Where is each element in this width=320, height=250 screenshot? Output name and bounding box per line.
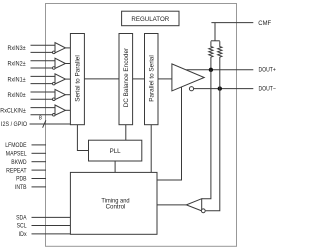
svg-text:INTB: INTB xyxy=(15,184,27,191)
wire RxIN0- xyxy=(31,98,53,100)
wire BKWD xyxy=(32,161,47,163)
wire SDA xyxy=(32,216,71,218)
svg-text:RxIN1±: RxIN1± xyxy=(8,76,27,83)
svg-text:SCL: SCL xyxy=(17,223,27,230)
wire A1 output xyxy=(65,78,70,80)
svg-text:CMF: CMF xyxy=(258,20,271,27)
wire RxIN1- xyxy=(31,83,53,85)
wire DOUT+ line xyxy=(186,69,253,71)
input buffer A0 xyxy=(53,89,66,100)
svg-text:BKWD: BKWD xyxy=(11,159,27,166)
wire driver lower tap to timing block xyxy=(157,87,182,180)
wire A2 output xyxy=(65,63,70,65)
receiver inverting input bubble xyxy=(201,209,205,213)
wire RxIN3- xyxy=(31,51,53,53)
wire RxIN2- xyxy=(31,67,53,69)
svg-text:Parallel to Serial: Parallel to Serial xyxy=(149,55,156,102)
driver inverting output bubble xyxy=(189,87,193,91)
wire P2S to driver xyxy=(158,78,172,80)
svg-text:Serial to Parallel: Serial to Parallel xyxy=(75,55,82,102)
input buffer A3 xyxy=(53,43,66,54)
output driver U2 xyxy=(172,64,204,91)
wire resistor top rail xyxy=(211,40,220,42)
wire S2P to PLL xyxy=(77,125,88,151)
wire REPEAT xyxy=(32,169,47,171)
wire P2S to timing block xyxy=(150,125,152,173)
serial to parallel block xyxy=(70,34,84,125)
wire PLL to timing block xyxy=(114,161,116,172)
regulator block xyxy=(122,11,179,26)
svg-text:RxIN3±: RxIN3± xyxy=(8,45,27,52)
svg-text:PDB: PDB xyxy=(16,176,27,183)
parallel to serial block xyxy=(145,34,159,125)
svg-text:LFMODE: LFMODE xyxy=(5,142,26,149)
svg-text:8: 8 xyxy=(39,115,42,121)
svg-text:SDA: SDA xyxy=(16,215,27,222)
wire MAPSEL xyxy=(32,152,47,154)
wire RxIN2+ xyxy=(31,60,56,62)
bus width slash xyxy=(43,120,46,127)
wire DCBE to P2S xyxy=(133,78,145,80)
input buffer A2 xyxy=(53,58,66,69)
wire I2S/GPIO bus xyxy=(30,123,71,125)
svg-text:REPEAT: REPEAT xyxy=(6,167,27,174)
svg-text:DC Balance Encoder: DC Balance Encoder xyxy=(123,48,130,107)
wire DCBE to PLL xyxy=(125,125,127,141)
wire RxIN1+ xyxy=(31,75,56,77)
wire IDx xyxy=(32,233,71,235)
wire RxCLKIN- xyxy=(31,114,53,116)
wire PDB xyxy=(32,178,47,180)
wire ACLK output xyxy=(65,109,70,111)
svg-text:DOUT+: DOUT+ xyxy=(259,67,277,74)
PLL block xyxy=(89,140,142,161)
wire RxIN3+ xyxy=(31,44,56,46)
svg-text:Control: Control xyxy=(106,203,126,210)
svg-text:I2S / GPIO: I2S / GPIO xyxy=(1,121,27,128)
svg-text:RxIN2±: RxIN2± xyxy=(8,61,27,68)
wire RxCLKIN+ xyxy=(31,107,56,109)
svg-text:RxCLKIN±: RxCLKIN± xyxy=(0,108,26,115)
node junction R1/DOUT+ xyxy=(209,68,213,72)
svg-text:DOUT−: DOUT− xyxy=(259,86,277,93)
IC boundary box xyxy=(46,4,237,247)
wire INTB xyxy=(32,186,47,188)
wire LFMODE xyxy=(32,144,47,146)
wire feedback B (DOUT- to receiver) xyxy=(206,70,220,211)
DC balance encoder block xyxy=(119,34,133,125)
node junction R2/DOUT- xyxy=(218,86,222,90)
timing and control block xyxy=(70,172,157,234)
svg-text:PLL: PLL xyxy=(110,148,122,155)
wire CMF line xyxy=(211,22,253,24)
wire SCL xyxy=(32,225,71,227)
svg-text:IDx: IDx xyxy=(19,231,28,238)
svg-text:RxIN0±: RxIN0± xyxy=(8,92,27,99)
resistor R1 xyxy=(209,41,213,70)
wire A3 output xyxy=(65,47,70,49)
svg-text:REGULATOR: REGULATOR xyxy=(131,16,169,23)
wire feedback A (DOUT+ to receiver) xyxy=(202,70,211,199)
wire A0 output xyxy=(65,94,70,96)
wire CMF drop xyxy=(214,23,216,41)
wire receiver output to timing block xyxy=(157,204,186,206)
feedback receiver U3 xyxy=(186,199,201,211)
resistor R2 xyxy=(218,41,222,70)
svg-text:MAPSEL: MAPSEL xyxy=(6,151,27,158)
input buffer ACLK xyxy=(53,105,66,116)
input buffer A1 xyxy=(53,74,66,85)
wire S2P to DCBE xyxy=(84,78,119,80)
wire RxIN0+ xyxy=(31,91,56,93)
wire DOUT- line xyxy=(194,88,254,90)
